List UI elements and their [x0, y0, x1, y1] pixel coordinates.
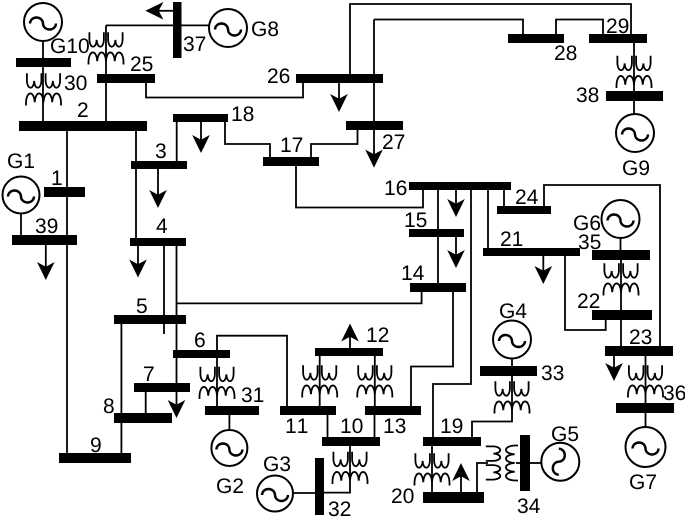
generator G6 — [602, 200, 640, 238]
transformer bus 10 - bus 32 — [333, 452, 368, 484]
bus 4 — [130, 238, 186, 246]
load arrow bus 20 — [452, 463, 470, 492]
transformer bus 23 - bus 36 — [628, 365, 663, 397]
transformer bus 29 - bus 38 — [617, 56, 652, 88]
bus 26 — [296, 74, 383, 83]
wire bus 19 to bus 20 through transformer — [431, 446, 433, 492]
label 8 — [104, 398, 114, 413]
bus 14 — [410, 283, 466, 292]
bus 35 — [592, 250, 650, 260]
label G1 — [8, 153, 34, 168]
wire bus 29 to bus 38 through transformer — [633, 43, 635, 91]
transformer bus 19 - bus 20 — [415, 453, 450, 485]
generator G3 — [257, 476, 293, 512]
generator G7 — [626, 427, 666, 467]
load arrow bus 16 — [447, 190, 465, 217]
wire bus 22 to bus 23 — [620, 320, 622, 346]
generator G5 — [541, 443, 579, 481]
bus 7 — [134, 383, 190, 392]
bus 6 — [173, 350, 230, 358]
generator G4 — [493, 321, 531, 359]
bus 9 — [59, 453, 131, 463]
label 20 — [392, 488, 413, 503]
generator G9 — [616, 114, 654, 152]
wire bus 18 to bus 17 — [225, 122, 270, 157]
label 11 — [287, 419, 308, 433]
bus 29 — [589, 34, 647, 43]
label 38 — [577, 87, 599, 102]
wire transformer 25-37 feeder — [105, 25, 107, 74]
label 26 — [268, 68, 289, 83]
label 23 — [630, 329, 651, 344]
label 1 — [53, 171, 62, 185]
bus 31 — [205, 406, 259, 415]
label G8 — [252, 21, 278, 36]
label 36 — [664, 385, 685, 400]
wire bus 6 to bus 31 through transformer — [216, 358, 218, 406]
label 18 — [233, 106, 254, 121]
label 14 — [403, 266, 424, 280]
wire bus 26 to bus 29 — [350, 4, 631, 74]
bus 19 — [423, 437, 481, 446]
wire G6 to bus 35 — [620, 238, 622, 250]
wire bus 14 to bus 4 — [177, 292, 422, 303]
label 6 — [195, 332, 205, 347]
bus 3 — [131, 161, 187, 169]
bus 5 — [114, 315, 186, 324]
bus 18 — [173, 114, 228, 122]
wire bus 26 to bus 28 — [374, 20, 523, 35]
bus 28 — [508, 34, 564, 43]
label G3 — [264, 456, 290, 471]
label 25 — [131, 56, 152, 71]
wire bus 16 to bus 15 to bus 14 — [437, 190, 439, 283]
load arrow bus 3 — [149, 169, 167, 208]
wire bus 20 to transformer 34 — [477, 463, 488, 492]
label 39 — [36, 218, 58, 233]
bus 36 — [616, 403, 674, 413]
label G10 — [51, 38, 89, 53]
load arrow bus 27 — [365, 130, 383, 168]
transformer bus 19 - bus 33 — [495, 381, 530, 413]
label 28 — [555, 45, 576, 60]
wire bus 36 to G7 — [645, 413, 647, 427]
label 5 — [137, 299, 147, 314]
load arrow bus 39 — [37, 245, 55, 280]
label 2 — [78, 102, 88, 117]
load arrow bus 7 — [168, 400, 186, 418]
bus 23 — [605, 346, 673, 356]
label G7 — [630, 474, 656, 489]
wire bus 38 to G9 — [633, 101, 635, 114]
label 35 — [579, 234, 601, 249]
wire bus 2 to bus 3 — [135, 131, 137, 161]
wire bus 16 to bus 19 — [433, 190, 471, 437]
bus 27 — [346, 121, 403, 130]
wire bus 35 to bus 22 through transformer — [620, 260, 622, 310]
bus 37 — [173, 2, 182, 58]
bus 25 — [97, 74, 155, 83]
wire bus 7 to bus 8 — [145, 392, 147, 413]
wire G4 to bus 33 — [511, 359, 513, 367]
bus 30 — [16, 58, 71, 67]
wire bus 26 to bus 27 — [373, 20, 375, 122]
label 24 — [516, 189, 538, 204]
bus 16 — [409, 182, 511, 190]
wire bus 24 to bus 23 — [544, 185, 660, 346]
transformer bus 6 - bus 31 — [200, 367, 235, 399]
load arrow bus 26 — [330, 83, 348, 112]
generator G8 — [209, 9, 247, 47]
transformer bus 12 - bus 13 — [357, 365, 392, 397]
wire bus 12 to bus 11 through transformer — [319, 356, 321, 406]
wire bus 14 to bus 13 — [411, 292, 453, 406]
transformer bus 2 - bus 30 — [26, 73, 61, 105]
bus 22 — [592, 310, 652, 320]
label 13 — [385, 418, 406, 433]
label 4 — [156, 219, 167, 233]
wire bus 25 to bus 2 — [105, 83, 107, 121]
load arrow bus 12 — [341, 324, 359, 349]
bus 8 — [114, 413, 172, 423]
label G4 — [500, 303, 526, 318]
load arrow bus 23 — [605, 356, 623, 381]
wire G2 to bus 31 — [228, 415, 230, 431]
label 21 — [501, 231, 522, 246]
wire bus 12 to bus 13 through transformer — [374, 356, 376, 406]
bus 10 — [322, 437, 380, 446]
transformer bus 11 - bus 12 — [302, 365, 337, 397]
transformer bus 25 - bus 37 — [89, 32, 124, 64]
label 32 — [329, 501, 351, 516]
label 34 — [518, 498, 540, 513]
label 30 — [65, 75, 87, 90]
wire bus 34 to G5 — [530, 462, 541, 464]
generator G2 — [211, 430, 247, 466]
wire bus 6 to bus 11 — [217, 336, 287, 406]
wire G10 to bus 30 — [42, 41, 44, 58]
bus 11 — [280, 406, 336, 415]
label 33 — [542, 365, 564, 380]
bus 38 — [606, 91, 663, 101]
wire bus 30 to bus 2 through transformer — [42, 67, 44, 121]
wire bus 8 to bus 9 — [120, 423, 122, 453]
load arrow bus 15 — [447, 237, 465, 268]
bus 39 — [12, 235, 77, 245]
bus 12 — [315, 348, 383, 356]
bus 21 — [483, 248, 580, 256]
label 15 — [406, 213, 427, 228]
label G2 — [217, 478, 243, 493]
wire bus 4 to bus 5 to bus 6 to bus 7 — [176, 246, 178, 402]
bus 1 — [44, 187, 85, 197]
label 17 — [282, 138, 303, 152]
load arrow bus 18 — [192, 122, 210, 153]
wire bus 17 to bus 16 — [296, 166, 423, 208]
bus 2 — [19, 121, 147, 131]
transformer bus 22 - bus 35 — [604, 263, 639, 295]
wire bus 23 to bus 36 through transformer — [645, 356, 647, 403]
label 12 — [368, 327, 389, 342]
label 31 — [242, 387, 264, 402]
load arrow bus 37 — [145, 2, 173, 20]
wire bus 3 to bus 4 — [135, 169, 137, 238]
label G6 — [574, 215, 600, 230]
wire bus 10 to bus 32 through transformer — [324, 446, 350, 493]
bus 34 — [520, 435, 530, 491]
transformer bus 20 - bus 34 — [486, 446, 518, 481]
wire bus 18 to bus 3 — [176, 122, 178, 161]
load arrow bus 4 — [129, 246, 147, 278]
label G5 — [552, 426, 578, 441]
label 9 — [91, 437, 101, 452]
wire bus 16 to bus 24 — [503, 190, 505, 206]
label 22 — [578, 293, 599, 308]
wire bus 13 to bus 10 — [374, 415, 376, 437]
label 27 — [383, 134, 404, 149]
wire bus 4 to bus 5 — [163, 246, 165, 334]
bus 20 — [423, 492, 484, 503]
label 7 — [144, 367, 154, 381]
wire G1 to bus 39 — [20, 213, 22, 235]
wire G3 to bus 32 — [293, 492, 315, 494]
load arrow bus 21 — [535, 256, 553, 284]
label 10 — [342, 418, 363, 433]
generator G10 — [24, 3, 62, 41]
bus 24 — [497, 206, 551, 214]
wire bus 16 to bus 21 — [487, 190, 489, 248]
bus 15 — [409, 229, 464, 237]
wire bus 17 to bus 27 — [311, 130, 358, 157]
wire transformer 34 to bus 34 — [516, 462, 520, 464]
label 19 — [442, 418, 463, 433]
label 3 — [156, 143, 166, 158]
label 16 — [386, 180, 407, 195]
wire bus 28 to bus 29 — [556, 20, 603, 35]
wire bus 5 to bus 8 — [120, 324, 122, 413]
generator G1 — [3, 177, 40, 214]
label G9 — [623, 160, 649, 175]
bus 33 — [480, 366, 537, 376]
wire bus 21 to bus 22 — [565, 256, 606, 330]
wire bus 25 transformer to bus 37 and G8 — [106, 24, 209, 26]
bus 13 — [365, 406, 421, 415]
bus 32 — [315, 458, 324, 515]
wire bus 25 to bus 26 — [146, 83, 303, 98]
wire bus 11 to bus 10 — [327, 415, 329, 437]
wire bus 2 to bus 1 to bus 39 to bus 9 — [66, 131, 68, 453]
label 37 — [184, 36, 206, 51]
bus 17 — [263, 157, 319, 166]
wire bus 33 to bus 19 through transformer — [472, 376, 512, 437]
label 29 — [607, 18, 628, 33]
